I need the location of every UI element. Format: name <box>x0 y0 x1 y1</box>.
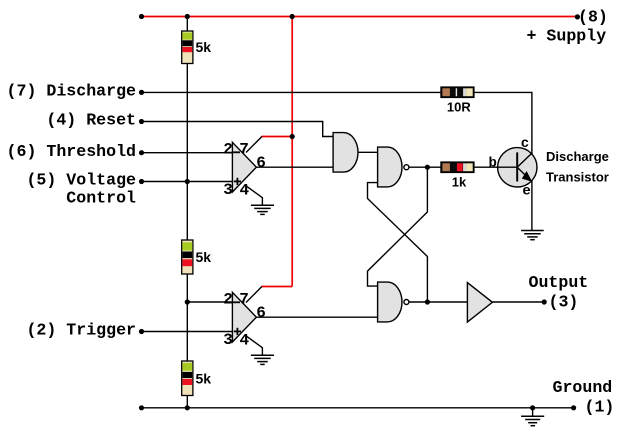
wire: comparator U2 pin7 diagonal <box>246 287 262 303</box>
svg-text:(4) Reset: (4) Reset <box>46 111 136 130</box>
svg-text:5k: 5k <box>196 370 212 386</box>
svg-text:Ground: Ground <box>553 378 613 397</box>
junction: divider 2/3 tap to control line <box>185 179 190 184</box>
node (8) terminal dot <box>575 14 580 19</box>
wire: latch cross Q to G2 input <box>368 167 428 286</box>
ground symbol comparator U2 <box>251 355 274 364</box>
node (2) trigger terminal dot <box>139 329 144 334</box>
wire: voltage control pin5 line <box>142 181 233 183</box>
junction: comparator U1 pin7 to Vcc branch <box>290 134 295 139</box>
junction: divider chain to ground rail <box>185 405 190 410</box>
junction: NAND G2 output node Qbar <box>425 299 430 304</box>
svg-text:(6) Threshold: (6) Threshold <box>7 142 136 161</box>
junction: supply rail at pin 8 label terminal <box>139 14 144 19</box>
wire: comparator U2 pin4 to ground <box>246 336 262 355</box>
comparator U1 (threshold) <box>232 142 256 192</box>
junction: supply rail to red Vcc branch <box>290 14 295 19</box>
wire: trigger pin2 line <box>142 331 233 333</box>
svg-text:(2) Trigger: (2) Trigger <box>26 321 136 340</box>
wire: latch cross Qbar to G1 input <box>368 183 428 302</box>
AND gate <box>333 133 358 173</box>
wire: comparator U1 output to AND gate <box>256 166 333 168</box>
wire: comparator U1 pin7 diagonal <box>246 137 262 153</box>
svg-text:(8): (8) <box>578 8 608 27</box>
node (5) voltage control terminal dot <box>139 179 144 184</box>
wire: 1k to transistor base <box>474 166 517 168</box>
output buffer <box>467 283 492 323</box>
wire: red stub to comparator U2 pin7 <box>262 286 293 288</box>
ground symbol comparator U1 <box>251 205 274 214</box>
wire: NAND G2 output to buffer <box>409 301 467 303</box>
comparator U2 minus mark <box>233 301 240 303</box>
wire: reset pin4 line <box>142 122 334 137</box>
svg-text:10R: 10R <box>447 100 471 115</box>
svg-text:Output: Output <box>529 273 589 292</box>
comparator U2 plus mark <box>234 328 241 335</box>
svg-text:6: 6 <box>256 154 266 172</box>
svg-text:(5) Voltage: (5) Voltage <box>26 171 136 190</box>
transistor Q1 discharge <box>497 148 538 187</box>
resistor R1 5k <box>182 31 193 64</box>
svg-text:2: 2 <box>223 291 233 309</box>
svg-text:(3): (3) <box>549 293 579 312</box>
svg-text:c: c <box>521 136 529 152</box>
wire: ground symbol stem pin1 <box>532 408 534 417</box>
wire: divider tap to comparator U2 <box>187 301 232 303</box>
NAND G2 bubble <box>404 300 409 305</box>
svg-text:1k: 1k <box>452 175 467 190</box>
wire: discharge pin7 line <box>142 91 442 93</box>
ground symbol pin1 <box>521 416 544 425</box>
NAND G1 bubble <box>404 165 409 170</box>
NAND gate G1 <box>378 147 402 187</box>
resistor R3 5k <box>182 361 193 396</box>
node (6) threshold terminal dot <box>139 150 144 155</box>
comparator U1 minus mark <box>233 151 240 153</box>
svg-text:e: e <box>522 184 530 200</box>
svg-text:2: 2 <box>223 141 233 159</box>
svg-text:7: 7 <box>239 141 249 159</box>
wire: ground rail pin1 <box>142 407 574 409</box>
comparator U1 plus mark <box>234 178 241 185</box>
node (1) ground rail left terminal dot <box>139 405 144 410</box>
svg-text:5k: 5k <box>196 39 212 55</box>
svg-text:b: b <box>488 155 496 171</box>
comparator U2 (trigger) <box>232 292 256 342</box>
ground symbol transistor emitter <box>521 231 544 240</box>
svg-text:Transistor: Transistor <box>546 169 609 184</box>
wire: +supply red rail <box>142 16 578 18</box>
node (4) reset terminal dot <box>139 119 144 124</box>
wire: comparator U2 output to NAND G2 <box>256 316 377 318</box>
wire: AND gate to NAND G1 <box>358 151 378 153</box>
wire: buffer to output pin3 <box>492 301 544 303</box>
svg-text:3: 3 <box>223 181 233 199</box>
svg-text:(1): (1) <box>585 398 615 417</box>
svg-text:(7) Discharge: (7) Discharge <box>7 82 136 101</box>
junction: NAND G1 output node Q <box>425 165 430 170</box>
svg-text:4: 4 <box>239 182 249 200</box>
junction: ground symbol to ground rail <box>530 405 535 410</box>
NAND gate G2 <box>378 282 402 322</box>
wire: emitter to ground <box>531 181 533 231</box>
svg-text:Control: Control <box>66 189 136 208</box>
wire: red stub to comparator U1 pin7 <box>262 136 293 138</box>
node (3) output terminal dot <box>542 299 547 304</box>
wire: red vertical Vcc branch <box>291 17 293 287</box>
svg-text:3: 3 <box>223 331 233 349</box>
resistor R2 5k <box>182 240 193 274</box>
svg-text:7: 7 <box>239 291 249 309</box>
resistor 1k (base) <box>441 162 474 172</box>
junction: divider 1/3 tap to comparator U2 <box>185 299 190 304</box>
resistor 10R <box>441 87 474 97</box>
wire: threshold pin6 line <box>142 152 233 154</box>
svg-text:Discharge: Discharge <box>546 149 609 164</box>
wire: comparator U1 pin4 to ground <box>246 186 262 205</box>
svg-text:5k: 5k <box>196 249 212 265</box>
svg-text:6: 6 <box>256 304 266 322</box>
wire: 10R to collector <box>474 92 532 154</box>
wire: NAND G1 output to 1k <box>409 166 441 168</box>
svg-text:+ Supply: + Supply <box>527 26 607 45</box>
wire: divider chain vertical <box>186 17 188 408</box>
node (1) terminal dot <box>571 405 576 410</box>
node (7) discharge terminal dot <box>139 90 144 95</box>
junction: supply rail to divider chain <box>185 14 190 19</box>
svg-text:4: 4 <box>239 332 249 350</box>
